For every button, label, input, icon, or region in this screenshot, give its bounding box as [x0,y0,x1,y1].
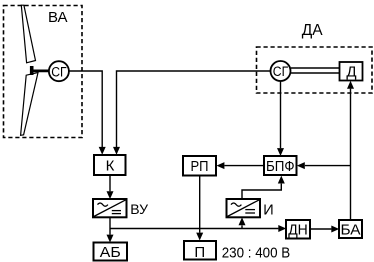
block Д (diesel engine) [340,62,363,81]
wind turbine upper blade [21,5,35,63]
dashed enclosure ДА (diesel unit) [257,47,373,93]
svg-text:БПФ: БПФ [266,158,295,175]
generator СГ (wind) [49,61,69,81]
svg-text:Д: Д [346,63,356,80]
svg-text:ДН: ДН [288,222,308,239]
block П (consumers) [184,241,216,260]
svg-text:И: И [263,203,273,219]
svg-text:ВУ: ВУ [130,201,148,217]
inverter AC tilde [231,203,241,206]
svg-text:БА: БА [341,221,361,238]
generator СГ (diesel) [271,61,291,81]
wire СГ(ДА) to БПФ with arrow [280,82,282,149]
svg-text:К: К [106,157,115,174]
block БПФ (frequency converter) [264,156,297,175]
wire БА to Д with arrow [350,89,352,220]
wire И to БПФ with arrow [242,184,281,199]
wire К to СГ(ДА) with arrow into К [117,71,271,147]
svg-text:РП: РП [191,158,209,175]
block К (switch) [94,155,126,175]
block ДН (voltage sensor) [286,220,310,239]
wind turbine lower blade [21,73,38,136]
svg-text:П: П [194,244,205,261]
svg-text:СГ: СГ [51,64,67,79]
branch wire to БПФ with arrow [305,165,351,167]
block ВУ (rectifier) [93,199,127,217]
inverter diagonal [227,200,259,217]
block И (inverter) [227,199,261,217]
block БА (automation unit) [339,220,362,238]
inverter DC bars [245,209,255,211]
turbine shaft [33,70,50,73]
svg-text:ДА: ДА [302,22,323,39]
dashed enclosure ВА (wind unit) [4,6,83,138]
block АБ (battery) [94,243,128,261]
rectifier AC tilde [98,203,108,206]
svg-text:230 : 400 В: 230 : 400 В [222,244,291,261]
wire ВУ to АБ [109,217,111,234]
rectifier DC bars [112,210,121,212]
turbine hub [30,66,34,75]
wire К to ВУ [109,175,111,191]
DC bus wire to ДН with arrow [110,228,278,230]
svg-text:ВА: ВА [48,9,68,26]
mechanical coupling double line [291,67,340,69]
wire ДН to БА with arrow [310,228,331,230]
wire bus to И with arrow [241,225,243,228]
wire РП to П [199,176,201,233]
wire БПФ to РП with arrow [225,165,265,167]
rectifier diagonal [94,200,126,217]
svg-text:СГ: СГ [273,64,289,79]
block РП (distribution) [183,156,216,176]
wire СГ(ВА) to К with arrow [70,71,103,147]
svg-text:АБ: АБ [100,244,121,261]
